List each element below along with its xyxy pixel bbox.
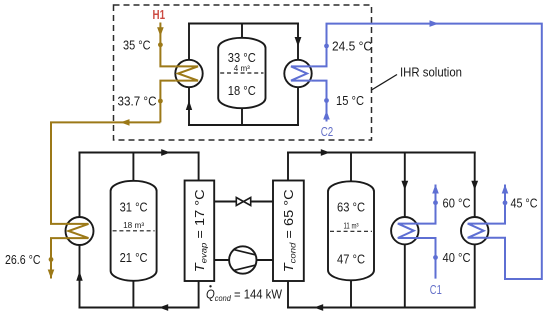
wire: IHR loop bottom header bbox=[188, 124, 299, 126]
wire: condenser top riser bbox=[287, 152, 289, 181]
heat exchanger HX1 (C1 side) circle bbox=[391, 217, 418, 244]
svg-text:31 °C: 31 °C bbox=[120, 200, 148, 215]
coil inside HX2 redrawn (blue over circle) bbox=[468, 224, 489, 238]
node dot 26.6 C bbox=[49, 257, 54, 262]
wire: H1 inlet (orange) with down arrow bbox=[157, 23, 175, 67]
label Q-cond = 144 kW bbox=[206, 285, 283, 303]
wire: condenser bottom drop bbox=[287, 281, 289, 308]
wire: HX2 outlet 45 C with up arrow bbox=[488, 185, 508, 224]
wire: evaporator bottom drop bbox=[198, 281, 200, 308]
compressor bbox=[229, 246, 256, 273]
wire: drop below HX4 bbox=[297, 87, 299, 126]
wire: drop into HX1 with down arrow bbox=[401, 152, 408, 217]
svg-text:15 °C: 15 °C bbox=[336, 93, 364, 108]
wire: left loop left vertical below HX5 with up arrow bbox=[76, 245, 82, 308]
coil inside HX4 (blue) bbox=[291, 66, 312, 80]
svg-text:63 °C: 63 °C bbox=[337, 200, 365, 215]
heat exchanger HX2 (45 C side) circle bbox=[461, 217, 488, 244]
node dot 35 C bbox=[158, 42, 163, 47]
node dot 24.5 C bbox=[324, 44, 329, 49]
wire: tank T2 bottom drop bbox=[350, 280, 352, 308]
wire: tank T1 bottom drop bbox=[132, 280, 134, 308]
svg-text:21 °C: 21 °C bbox=[120, 250, 148, 265]
wire: riser above HX3 bbox=[188, 23, 190, 60]
svg-text:60 °C: 60 °C bbox=[443, 195, 471, 210]
svg-text:35 °C: 35 °C bbox=[123, 38, 151, 53]
svg-text:33.7 °C: 33.7 °C bbox=[118, 94, 157, 109]
wire: drop below HX3 with up arrow bbox=[186, 87, 192, 126]
condenser block U-cond bbox=[273, 181, 304, 282]
svg-text:IHR solution: IHR solution bbox=[400, 65, 462, 80]
wire: left loop top header with right arrow bbox=[79, 149, 200, 156]
svg-text:11 m³: 11 m³ bbox=[344, 222, 359, 231]
coil inside HX3 (orange) bbox=[175, 66, 198, 80]
tank T3 (IHR buffer 4 m3) bbox=[218, 38, 265, 108]
svg-text:4 m³: 4 m³ bbox=[234, 64, 250, 73]
evaporator block U-evap bbox=[185, 181, 215, 282]
wire: drop below HX2 bbox=[474, 244, 476, 308]
heat exchanger HX4 (C2/IHR) bbox=[284, 60, 311, 87]
svg-text:45 °C: 45 °C bbox=[511, 196, 538, 211]
wire: C2 inlet (blue) with up arrow bbox=[312, 81, 330, 122]
wire: tank T3 top riser bbox=[241, 24, 243, 39]
heat exchanger HX3 (H1/IHR) bbox=[175, 60, 202, 87]
expansion valve bbox=[236, 198, 250, 206]
wire: right loop bottom header with left arrow bbox=[287, 304, 476, 311]
wire: C1 inlet (blue) bbox=[419, 238, 436, 279]
wire: refrigerant line evaporator-valve-condenser bbox=[214, 201, 273, 203]
svg-text:40 °C: 40 °C bbox=[443, 250, 471, 265]
tank T2 (11 m3) bbox=[328, 181, 374, 280]
svg-text:47 °C: 47 °C bbox=[337, 252, 365, 267]
wire: IHR loop top header bbox=[188, 23, 299, 25]
wire: evaporator top riser bbox=[198, 152, 200, 181]
wire: left loop bottom header with left arrow bbox=[79, 304, 200, 311]
wire: right loop top header with right arrow bbox=[287, 149, 476, 156]
svg-text:C2: C2 bbox=[321, 125, 334, 139]
wire: drop below HX1 bbox=[404, 244, 406, 308]
wire: HX5 outlet to 26.6 C with down arrow bbox=[48, 238, 66, 278]
node dot 33.7 C bbox=[158, 99, 163, 104]
wire: refrigerant line evaporator-compressor-condenser bbox=[214, 259, 273, 261]
wire: riser above HX4 with down arrow bbox=[295, 23, 302, 60]
svg-text:18 °C: 18 °C bbox=[228, 83, 256, 98]
coil inside HX2 (blue) bbox=[468, 224, 489, 238]
wire: tank T1 top riser bbox=[132, 153, 134, 183]
wire: orange crossover to HX5 with left arrow bbox=[51, 119, 160, 224]
svg-text:24.5 °C: 24.5 °C bbox=[332, 39, 372, 54]
node dot 60 C bbox=[433, 200, 438, 205]
wire: tank T2 top riser bbox=[350, 153, 352, 183]
tank T1 (18 m3) bbox=[111, 181, 157, 281]
wire: drop into HX2 with down arrow bbox=[471, 152, 478, 217]
wire: HX1 outlet 60 C with up arrow bbox=[419, 185, 439, 224]
node dot 45 C bbox=[503, 200, 508, 205]
coil inside HX1 redrawn (blue over circle) bbox=[398, 224, 419, 238]
wire: left loop left vertical above HX5 bbox=[79, 152, 81, 217]
wire: blue run 24.5 C to HX2 inlet (right arrow on top) bbox=[312, 20, 542, 279]
wire: HX3 outlet down to 33.7 C (orange) bbox=[160, 81, 175, 123]
coil inside HX5 (orange) bbox=[66, 224, 89, 238]
node dot 15 C bbox=[324, 98, 329, 103]
svg-text:C1: C1 bbox=[430, 283, 442, 297]
svg-text:26.6 °C: 26.6 °C bbox=[5, 252, 41, 267]
IHR solution label with callout bbox=[372, 65, 463, 91]
heat exchanger HX5 (26.6 C side) bbox=[66, 217, 94, 245]
coil inside HX1 (blue) bbox=[398, 224, 419, 238]
coil inside HX5 redrawn (orange over circle) bbox=[66, 224, 89, 238]
IHR system dashed boundary bbox=[114, 5, 372, 140]
svg-text:18 m³: 18 m³ bbox=[123, 221, 144, 230]
wire: tank T3 bottom drop bbox=[241, 108, 243, 125]
svg-text:H1: H1 bbox=[153, 8, 166, 22]
node dot 40 C bbox=[433, 255, 438, 260]
